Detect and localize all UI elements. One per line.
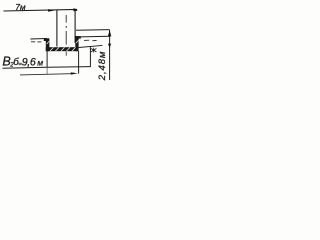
ground line right upper xyxy=(76,29,110,32)
svg-text:2,48м: 2,48м xyxy=(97,51,108,82)
foundation box left side xyxy=(46,51,48,68)
water level line right xyxy=(81,35,110,38)
paper background xyxy=(0,0,115,86)
water level line left xyxy=(30,38,47,41)
footnote asterisk xyxy=(91,48,96,53)
pipe left wall xyxy=(56,10,58,47)
ink blob at pipe top-right corner xyxy=(73,8,77,11)
channel right wall xyxy=(75,36,78,51)
wall projection vertical xyxy=(78,51,80,74)
connector under label xyxy=(46,67,48,74)
channel bottom slab (hatched) xyxy=(46,47,79,51)
arrowhead right at pipe wall xyxy=(48,9,55,12)
label В2б=9,6м xyxy=(2,55,43,69)
channel left wall xyxy=(46,38,50,51)
pipe centerline xyxy=(65,15,67,23)
label underline continuing into box bottom xyxy=(3,67,91,69)
dimension line vertical right xyxy=(109,30,111,80)
channel right lip xyxy=(75,36,81,39)
svg-text:м: м xyxy=(37,58,43,68)
ledge line right xyxy=(79,45,103,47)
channel left lip xyxy=(44,38,47,41)
pipe right wall xyxy=(74,9,76,43)
water level dashes left xyxy=(31,41,35,43)
arrowhead up xyxy=(108,30,111,36)
foundation box right side xyxy=(89,47,91,67)
leader arrowhead xyxy=(71,72,78,74)
water level dashes right xyxy=(84,39,89,41)
leader line bottom xyxy=(20,74,71,75)
svg-text:9,6: 9,6 xyxy=(22,57,36,69)
arrowhead down xyxy=(108,44,111,48)
dimension line (top, under 7м) xyxy=(4,9,78,11)
hatch gaps in slab xyxy=(47,40,79,51)
